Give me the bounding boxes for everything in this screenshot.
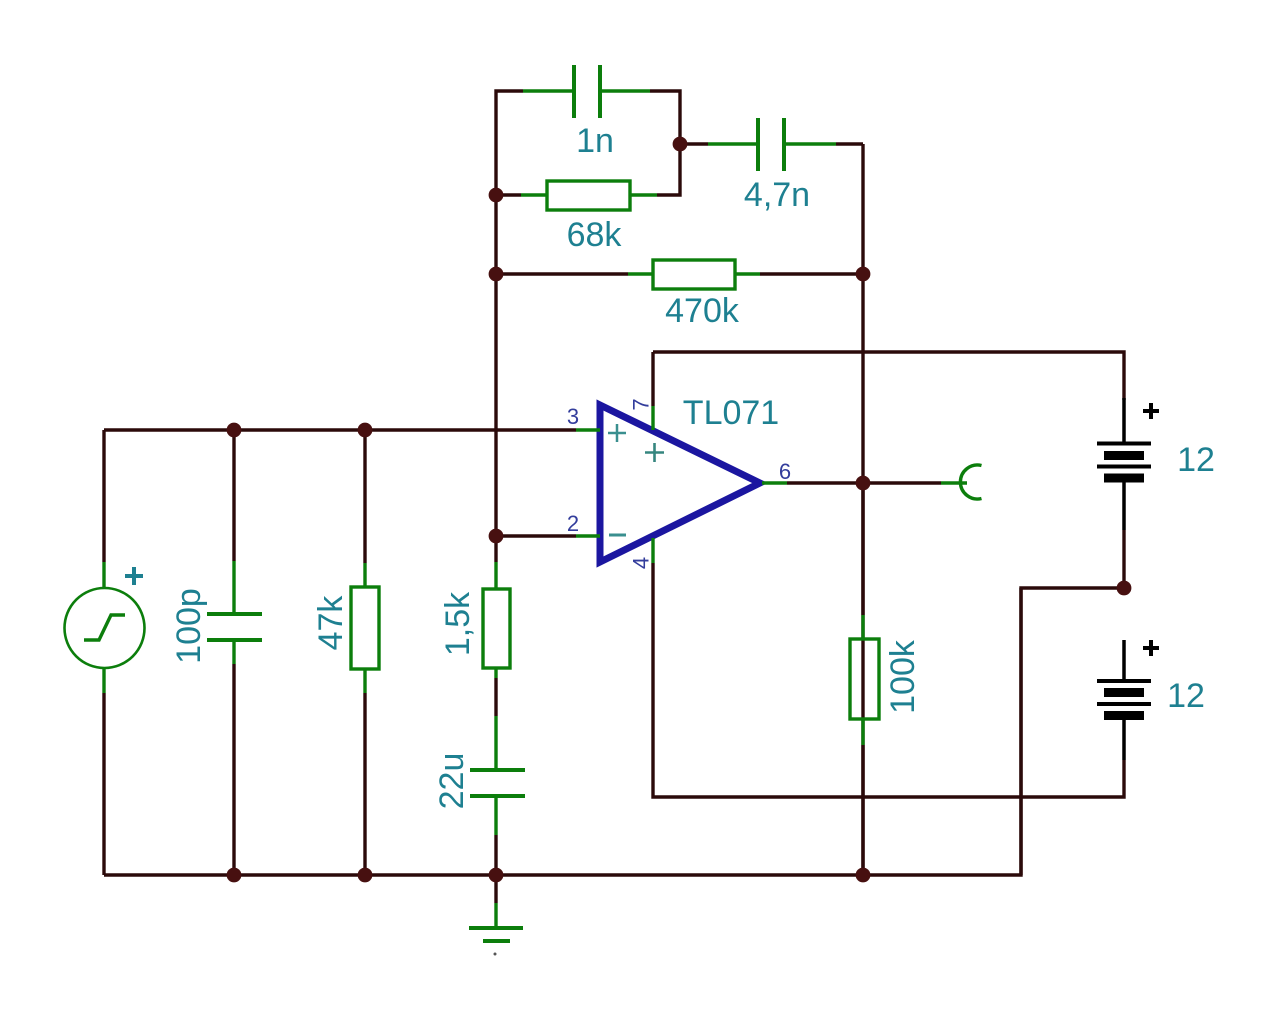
capacitor C 4,7n	[708, 118, 836, 171]
node: bottom rail / 100p junction	[227, 868, 242, 883]
wire: 470k row left segment	[496, 272, 628, 275]
wire: output row y=483	[787, 481, 941, 484]
plus mark of source	[125, 567, 143, 585]
node: input row / 47k junction	[358, 423, 373, 438]
wire: top-left loop left vertical x=496 from y=91 to y=195	[496, 91, 523, 195]
svg-text:3: 3	[567, 404, 579, 429]
wire: ground stem	[494, 875, 497, 903]
node: input row / 100p junction	[227, 423, 242, 438]
svg-text:TL071: TL071	[683, 394, 779, 432]
wire: 1n right side down to 68k elbow	[650, 91, 680, 195]
wire: 47k bottom to rail	[363, 693, 366, 875]
wire: 100p branch x=234	[232, 430, 235, 561]
resistor R 1,5k	[483, 562, 510, 678]
wire: 4,7n row from node x=680 to x=863	[680, 142, 708, 145]
wire: pin2 node down to 1,5k	[494, 536, 497, 562]
svg-text:47k: 47k	[312, 595, 350, 651]
plus mark of battery B1	[1143, 403, 1159, 419]
resistor R 100k	[850, 615, 879, 745]
pin 4 lead	[651, 538, 654, 563]
wire: 22u bottom to rail	[494, 835, 497, 875]
plus mark at noninverting input	[608, 424, 626, 442]
connector J1 (output)	[941, 465, 982, 499]
battery B1 12V	[1097, 398, 1151, 530]
wire: pin2 row	[496, 534, 576, 537]
wire: 68k left lead to node	[496, 193, 521, 196]
svg-text:470k: 470k	[665, 292, 740, 330]
op-amp U1 TL071	[600, 405, 760, 562]
pin 6 lead	[762, 481, 787, 484]
node: inverting input junction	[489, 529, 504, 544]
resistor R 68k	[521, 181, 657, 210]
minus mark at inverting input	[609, 534, 626, 537]
node: 68k left junction	[489, 188, 504, 203]
wire: source branch left vertical x=104	[102, 430, 105, 562]
svg-text:1n: 1n	[576, 122, 614, 160]
svg-text:7: 7	[629, 398, 654, 410]
ground	[469, 903, 523, 956]
wire: pin 4 riser down and negative rail to battery 2 bottom	[653, 563, 1124, 797]
wire: 47k branch x=365	[363, 430, 366, 563]
wire: input row y=430 from source branch to pin3	[104, 428, 576, 431]
svg-text:68k: 68k	[567, 216, 623, 254]
wire: right vertical x=863 from 4,7n row to bottom rail	[861, 144, 864, 875]
source V1 (limiter source circle)	[65, 562, 145, 693]
resistor R 470k	[628, 260, 760, 289]
capacitor C 1n	[523, 65, 650, 118]
node: bottom rail / 100k junction	[856, 868, 871, 883]
pin 3 lead	[576, 428, 600, 431]
plus mark inside op-amp	[645, 443, 664, 462]
node: battery midpoint junction	[1117, 581, 1132, 596]
svg-text:22u: 22u	[433, 753, 471, 810]
wire: 470k row right segment	[760, 272, 863, 275]
wire: pin 7 riser to top rail	[651, 352, 654, 406]
svg-text:2: 2	[567, 511, 579, 536]
wire: battery B1 bottom to mid junction	[1122, 530, 1125, 588]
wire: between 1,5k and 22u	[494, 678, 497, 716]
svg-text:4: 4	[629, 557, 654, 569]
node: bottom rail / ground junction	[489, 868, 504, 883]
node: output junction	[856, 476, 871, 491]
wire: 100k bottom to rail	[861, 745, 864, 875]
svg-text:12: 12	[1177, 441, 1215, 479]
node: 4,7n tap junction	[673, 137, 688, 152]
wire: source bottom to bottom rail	[102, 693, 105, 875]
node: bottom rail / 47k junction	[358, 868, 373, 883]
wire: 100p bottom to rail	[232, 664, 235, 875]
node: 470k right junction	[856, 267, 871, 282]
resistor R 47k	[351, 563, 379, 693]
wire: top rail y=352 to battery 1	[653, 352, 1124, 400]
pin 2 lead	[576, 534, 600, 537]
wire: mid junction elbow to bottom rail	[1021, 588, 1124, 875]
battery B2 12V	[1097, 640, 1151, 760]
capacitor C 100p	[207, 561, 262, 664]
svg-text:1,5k: 1,5k	[439, 591, 477, 656]
svg-text:6: 6	[779, 459, 791, 484]
wire: left vertical x=496 from 68k node down to pin2 node	[494, 195, 497, 536]
svg-text:100p: 100p	[170, 588, 208, 664]
pin 7 lead	[651, 406, 654, 430]
wire: 100k branch upper	[861, 483, 864, 615]
capacitor C 22u	[470, 716, 525, 835]
svg-text:100k: 100k	[884, 639, 922, 714]
wire: bottom rail y=875	[104, 588, 1021, 875]
plus mark of battery B2	[1143, 640, 1159, 656]
svg-text:12: 12	[1167, 677, 1205, 715]
svg-text:4,7n: 4,7n	[744, 176, 810, 214]
node: 470k left junction	[489, 267, 504, 282]
